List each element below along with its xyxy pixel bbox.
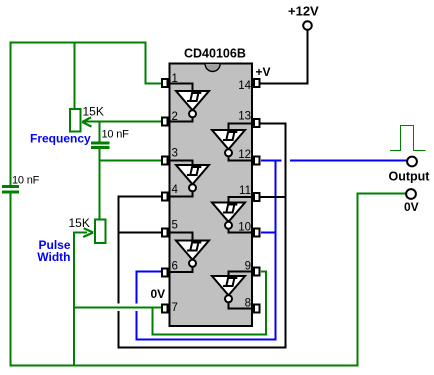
svg-text:10: 10 <box>238 222 251 234</box>
svg-text:Width: Width <box>37 250 70 264</box>
svg-text:Output: Output <box>389 170 431 184</box>
svg-text:6: 6 <box>172 261 178 273</box>
svg-text:5: 5 <box>172 220 178 232</box>
svg-text:1: 1 <box>172 73 178 85</box>
svg-text:Frequency: Frequency <box>30 132 91 146</box>
svg-text:8: 8 <box>245 298 251 310</box>
svg-text:10 nF: 10 nF <box>102 129 130 141</box>
svg-text:0V: 0V <box>151 287 166 301</box>
svg-text:3: 3 <box>172 147 178 159</box>
svg-text:13: 13 <box>238 111 251 123</box>
svg-text:15K: 15K <box>69 216 90 230</box>
svg-text:4: 4 <box>172 184 179 196</box>
svg-text:+12V: +12V <box>288 4 319 19</box>
svg-text:0V: 0V <box>404 200 419 214</box>
svg-text:7: 7 <box>172 302 178 314</box>
svg-text:CD40106B: CD40106B <box>184 47 246 61</box>
svg-text:14: 14 <box>238 80 251 92</box>
svg-text:12: 12 <box>238 149 251 161</box>
svg-text:2: 2 <box>172 111 178 123</box>
svg-text:9: 9 <box>245 261 251 273</box>
svg-text:+V: +V <box>256 65 271 79</box>
svg-text:15K: 15K <box>83 105 104 119</box>
svg-text:11: 11 <box>239 185 251 197</box>
svg-text:10 nF: 10 nF <box>12 175 40 187</box>
